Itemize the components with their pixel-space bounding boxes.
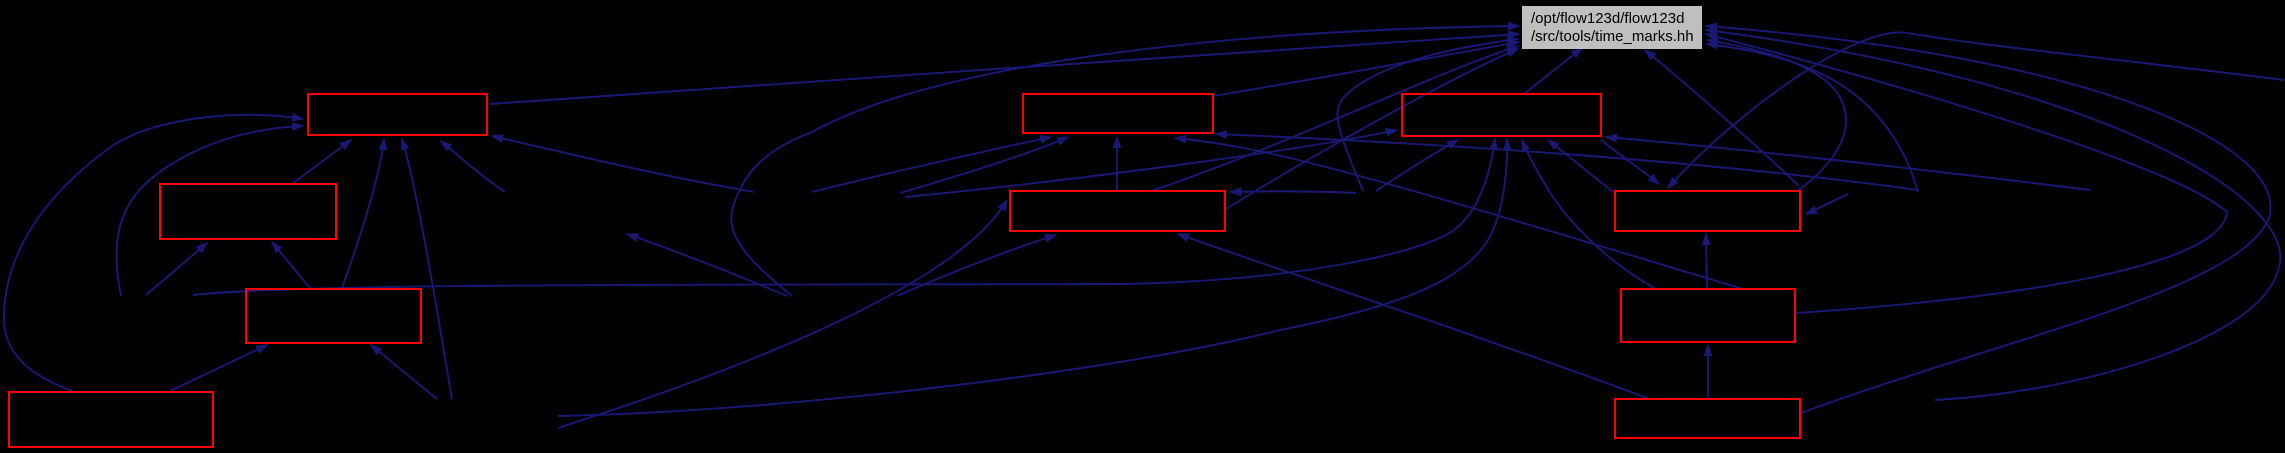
wire P1 to C — [371, 345, 437, 399]
wire P4 to A inner left arc — [116, 126, 303, 296]
wire J to E — [1175, 138, 1743, 289]
wire P11 to F short — [1230, 191, 1356, 193]
node J — [1621, 289, 1795, 342]
wire P6 to E — [812, 137, 1051, 192]
wire P1 to F long diagonal — [558, 200, 1007, 428]
node K — [1615, 399, 1800, 438]
wire J to H — [1522, 140, 1656, 289]
wire P1 to H long swoop then up — [558, 139, 1507, 416]
wire P11a to H steep diagonal — [1376, 140, 1458, 191]
node I — [1615, 191, 1800, 231]
wire P1 to A — [402, 139, 452, 399]
node D — [9, 392, 213, 447]
node E — [1023, 94, 1213, 133]
wire F to E vertical — [1116, 137, 1118, 191]
wire C to B — [272, 242, 310, 288]
wire K to J vertical — [1707, 345, 1709, 399]
node C — [246, 289, 421, 343]
wire K to F — [1178, 234, 1650, 399]
wire C to A — [342, 139, 384, 288]
wire I to H — [1548, 140, 1615, 193]
wire P2 to root big C curve — [731, 26, 1519, 296]
wire D to C — [170, 345, 267, 391]
svg-text:/src/tools/time_marks.hh: /src/tools/time_marks.hh — [1531, 28, 1694, 45]
wire I to root tight balloon — [1707, 40, 1846, 192]
wire P8a to I right edge — [1806, 194, 1848, 214]
wire I to root straight — [1645, 50, 1799, 186]
wire P8c to H long into right corner — [1606, 137, 2090, 190]
node root /opt/flow123d/flow123d/src/tools/time_marks.hh — [1522, 6, 1702, 49]
node H — [1402, 94, 1601, 136]
node B — [160, 184, 336, 239]
wire P8b to E long from right — [1216, 134, 1918, 190]
wire J to I vertical — [1706, 234, 1707, 289]
wire B to A — [292, 140, 351, 184]
wire P7 to E — [900, 137, 1068, 193]
wire far arc into I top — [1668, 32, 2284, 188]
wire P6 to A — [492, 136, 754, 192]
wire F right to root — [1226, 49, 1518, 209]
wire K to root outer loop — [1706, 26, 2271, 413]
wire J to root inner loop — [1706, 34, 2227, 313]
wire H to I — [1601, 140, 1659, 184]
wire P3 to A — [441, 141, 505, 192]
wire P4 to B — [146, 243, 207, 295]
wire F top to root — [1151, 46, 1518, 191]
wire A to root — [490, 34, 1519, 104]
wire hidden P11b to root — [1337, 39, 1518, 191]
wire H to root — [1524, 48, 1582, 94]
wire P4 to H long horizontal then up — [193, 139, 1495, 295]
wire P2 to P3 — [627, 234, 787, 296]
svg-text:/opt/flow123d/flow123d: /opt/flow123d/flow123d — [1531, 10, 1684, 27]
node F — [1010, 191, 1225, 231]
node A — [308, 94, 487, 135]
wire P9 to root arc — [1707, 44, 1918, 192]
wire P7 to H long into left edge — [905, 130, 1397, 197]
wire P10 to root far arc — [1706, 30, 2280, 400]
wire P2 to F — [897, 235, 1056, 296]
wire D to A outer left arc — [4, 115, 303, 392]
wire E to root — [1214, 42, 1519, 96]
